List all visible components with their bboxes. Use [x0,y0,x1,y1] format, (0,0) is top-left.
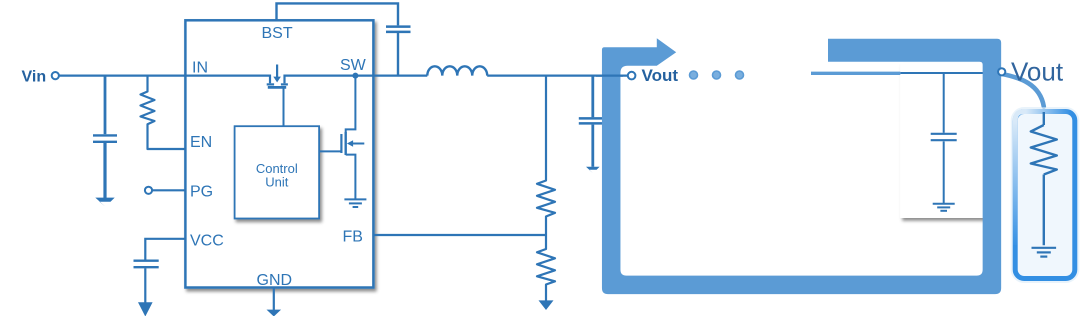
wire SW to inductor [374,74,427,76]
wire VCC [145,239,185,260]
transistor Q1 gate stem to control unit [283,87,285,126]
white panel (Vout load stage) [997,52,1073,218]
capacitor C_out1 lead lower [591,125,594,167]
wire FB to divider [374,234,546,236]
resistor R_load lead upper [1043,112,1045,125]
resistor R1 (upper divider) with lead from SW rail [537,76,555,235]
svg-text:Unit: Unit [265,175,289,190]
node Vout (left) [628,72,636,80]
control unit box [235,126,320,218]
white panel (output capacitor stage) [900,62,988,218]
capacitor C_VCC plates [134,261,159,268]
resistor R2 (lower divider) [537,235,555,301]
node Vin terminal [52,72,59,79]
capacitor C_out2 plates [931,134,957,140]
svg-text:FB: FB [343,229,363,246]
svg-text:Vout: Vout [642,66,679,85]
ground earth (C_out2) [933,204,955,211]
capacitor C_BST lead to SW [397,33,399,76]
transistor Q2 (low-side) drain path [346,76,356,133]
svg-text:EN: EN [190,134,212,151]
svg-text:VCC: VCC [190,233,224,250]
junction dot SW node [352,73,358,79]
node Vout (right) [998,68,1005,75]
svg-text:PG: PG [190,184,213,201]
ellipsis dot 3 [736,71,744,79]
transistor Q2 source path [346,155,356,199]
node PG terminal [145,187,152,194]
capacitor C_in lead lower [103,143,106,198]
capacitor C_out2 lead upper [943,73,945,133]
IC box U1 [185,20,373,287]
load box light left border [1013,118,1018,245]
svg-text:IN: IN [192,60,208,77]
inductor L1 [427,66,487,75]
wire BST pin up and over [277,3,399,25]
wire Vin to IN pin [59,74,185,76]
capacitor C_out1 plates [579,118,607,123]
wire across output panel to Vout node [900,72,998,74]
gate drive arrow (Q1) [276,65,278,78]
load highlight box [1015,112,1075,279]
wire SW rail from Q1 to box edge [285,74,375,76]
ground earth (R_load) [1032,248,1057,257]
body arrow (Q2) [353,143,365,145]
wire crossing under flow band (visible) [596,74,623,76]
wire IN rail inside box [185,74,270,76]
svg-text:GND: GND [257,272,293,289]
curve Vout node to load box [1002,74,1044,107]
ground arrow (C_out1) [586,167,600,173]
ellipsis dot 2 [713,71,721,79]
wire PG [152,189,185,191]
transistor Q2 channel bar [345,132,347,155]
svg-text:BST: BST [262,25,293,42]
capacitor C_out2 lead lower [943,141,945,203]
capacitor C_BST plates [386,27,411,32]
ground arrow (GND pin) [267,310,282,316]
ground arrow (C_in) [95,198,114,207]
resistor R_load zigzag [1031,125,1057,175]
wire inductor to Vout node [487,74,628,76]
wire GND pin [273,288,275,310]
capacitor C_in lead upper [104,76,107,135]
resistor R_load lead lower [1043,175,1045,246]
ground arrow (C_VCC) [138,302,153,316]
transistor Q1 (high-side) left drop and foot [267,75,274,85]
svg-text:SW: SW [340,57,367,74]
load box light top border [1022,109,1071,114]
ellipsis dot 1 [690,71,698,79]
ground earth (Q2 source) [344,199,366,207]
wire (light segment to output stage) [811,72,900,75]
load box light corner [1015,112,1024,121]
svg-text:Vout: Vout [1011,57,1064,87]
capacitor C_VCC lead lower [144,268,146,302]
load highlight box halo [1015,112,1075,279]
transistor Q2 gate bar [340,134,342,153]
capacitor C_in plates [93,135,117,141]
svg-text:Vin: Vin [22,68,47,85]
capacitor C_out1 lead upper [591,76,594,118]
transistor Q1 channel bar [268,86,286,89]
flow arrow loop (thick light band) [602,38,1001,294]
transistor Q1 right drop and foot [281,75,288,85]
ground arrow (R2) [539,300,554,310]
resistor R_EN with leads [141,76,186,149]
wire control unit to Q2 gate [319,150,341,152]
